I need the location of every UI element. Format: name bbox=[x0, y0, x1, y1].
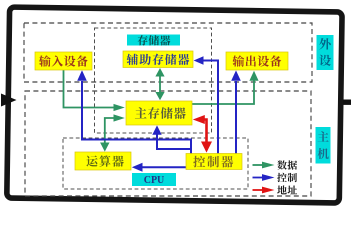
text: 运算器 bbox=[86, 155, 123, 166]
peripherals dashed box bbox=[24, 23, 312, 82]
text: 控制器 bbox=[193, 156, 233, 168]
text: 主机 bbox=[317, 131, 328, 159]
wire: controller to aux storage (blue control) bbox=[203, 61, 218, 154]
label box: storage 存储器 bbox=[127, 35, 180, 46]
wire: controller to output device (blue control) bbox=[235, 81, 237, 154]
label box: host 主机 bbox=[316, 127, 331, 164]
text: 外设 bbox=[319, 38, 331, 66]
box: input device 输入设备 bbox=[35, 52, 92, 70]
wire: input device to main memory (green data) bbox=[64, 70, 115, 108]
box: ALU 运算器 bbox=[75, 152, 131, 170]
text: 辅助存储器 bbox=[127, 54, 190, 65]
wire: controller branch to main memory (blue control) bbox=[157, 135, 191, 150]
outer black picture frame (slightly tilted) bbox=[7, 7, 342, 203]
legend arrow: control (blue) bbox=[253, 177, 264, 179]
storage dashed box bbox=[95, 28, 212, 133]
legend arrow: address (red) bbox=[253, 189, 264, 191]
wire: main memory to output device (green data) bbox=[192, 80, 254, 104]
wire: controller to input device (blue control) bbox=[82, 81, 191, 154]
legend arrow: data (green) bbox=[253, 164, 264, 166]
text: 主存储器 bbox=[135, 107, 186, 119]
left edge arrow notch bbox=[1, 94, 17, 107]
box: CPU bbox=[132, 173, 176, 186]
box: controller 控制器 bbox=[186, 154, 242, 170]
box: main memory 主存储器 bbox=[126, 101, 192, 125]
text: 输入设备 bbox=[39, 55, 88, 66]
label box: peripherals 外设 bbox=[317, 35, 334, 70]
box: output device 输出设备 bbox=[226, 52, 288, 70]
text: 输出设备 bbox=[232, 55, 281, 66]
host dashed box bbox=[25, 91, 311, 196]
svg-text:CPU: CPU bbox=[144, 175, 165, 186]
CPU dashed box bbox=[63, 138, 248, 189]
wire: ALU/main-memory bidirectional (green data) bbox=[105, 118, 114, 144]
right edge black stub bbox=[343, 100, 351, 105]
wire: main memory / controller address (red, double arrow) bbox=[203, 120, 207, 143]
wire: controller to ALU (blue control) bbox=[142, 166, 186, 168]
text legend: 数据 bbox=[277, 160, 297, 169]
text: 存储器 bbox=[138, 35, 171, 45]
text legend: 地址 bbox=[277, 185, 297, 194]
wire: aux storage / main memory double arrow (green data) bbox=[159, 76, 161, 94]
box: auxiliary storage 辅助存储器 bbox=[123, 51, 193, 68]
text legend: 控制 bbox=[277, 173, 297, 182]
